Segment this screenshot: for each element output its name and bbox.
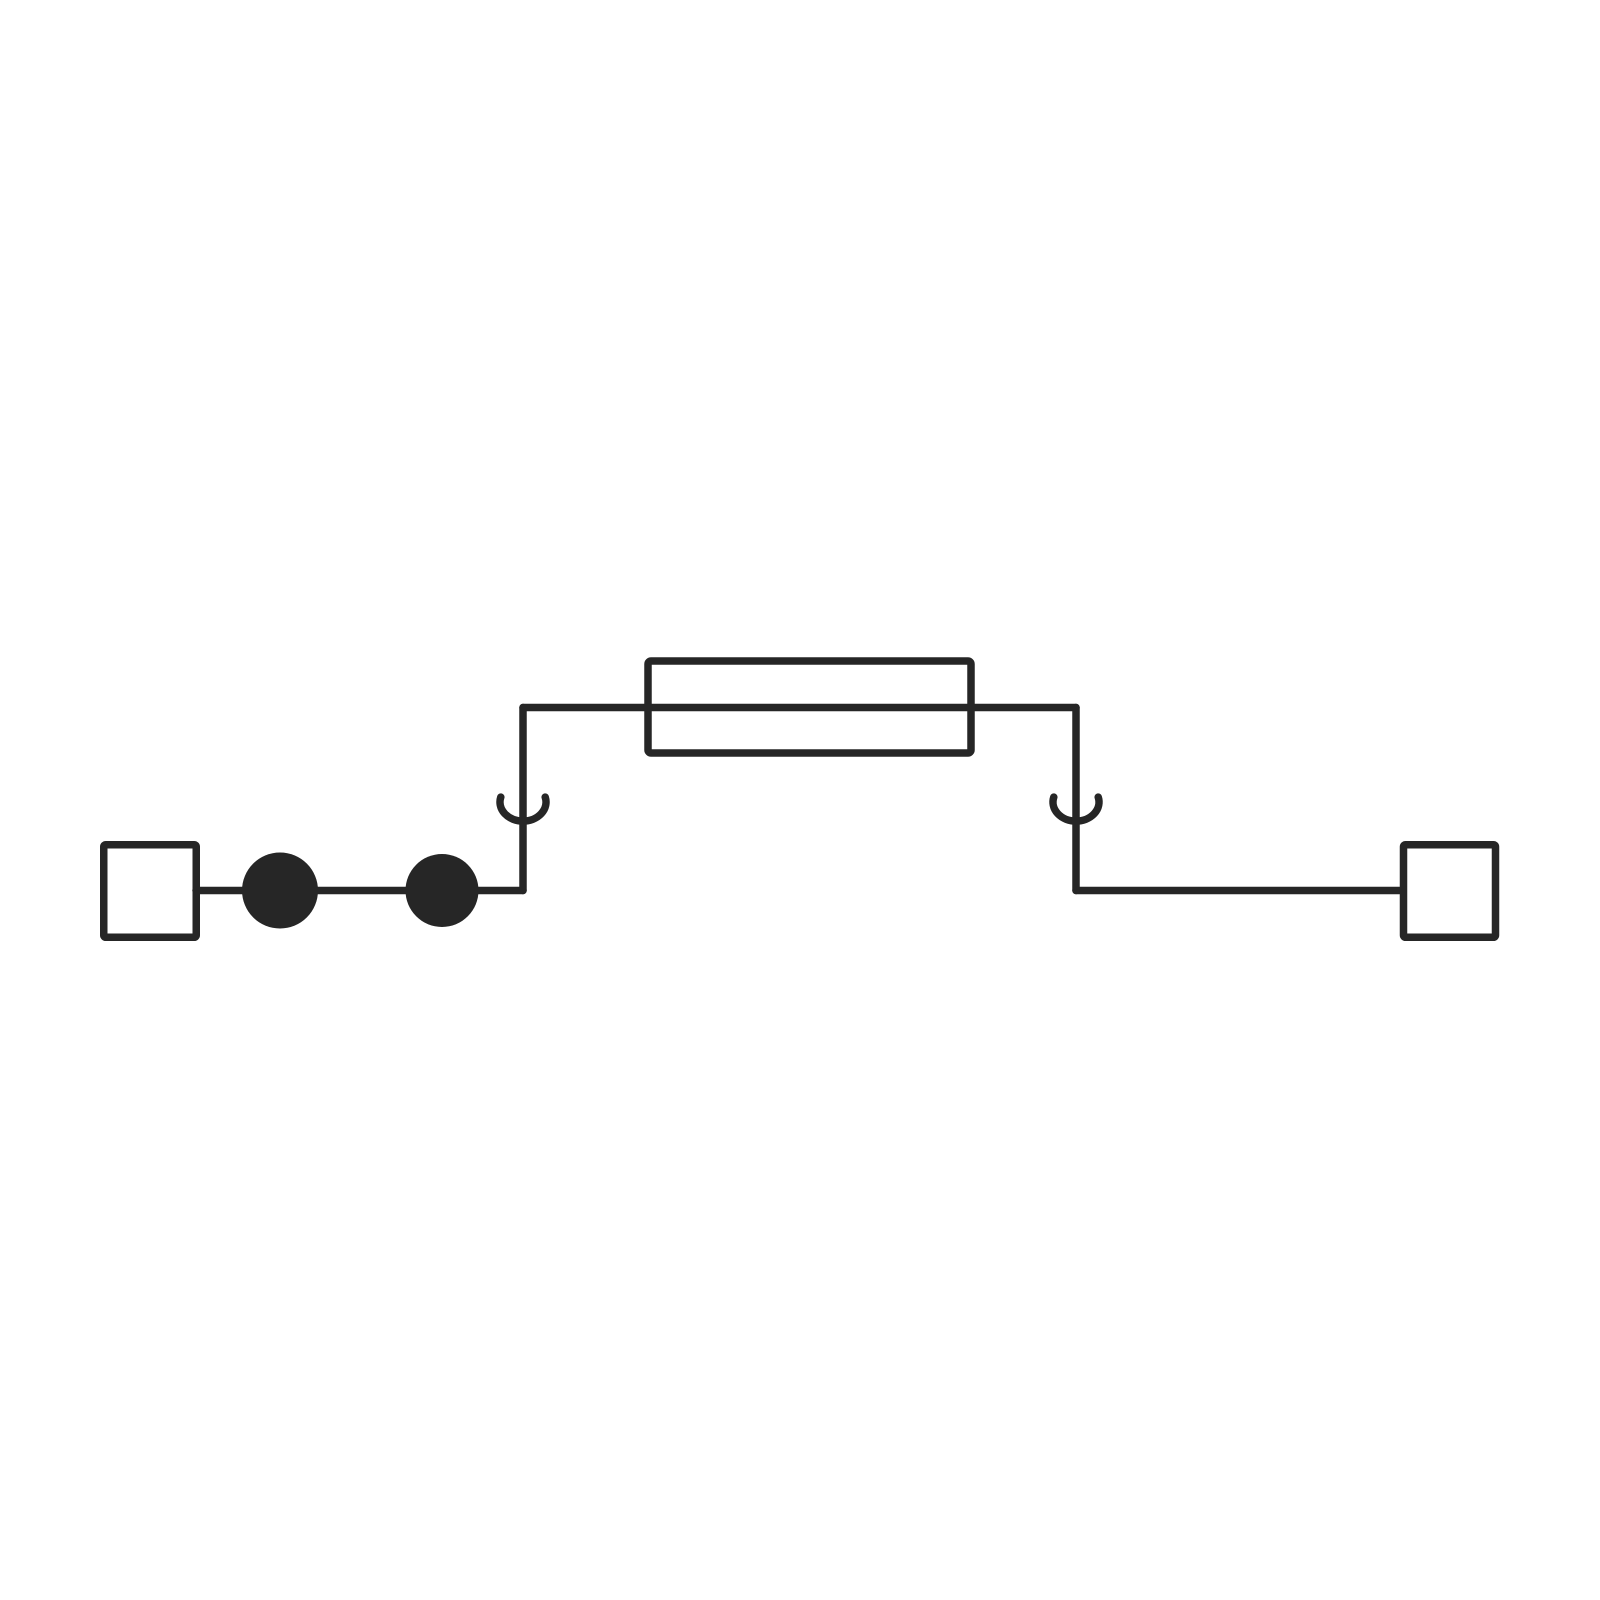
wire: left terminal to left riser [196, 887, 523, 895]
wire: top run through fuse [523, 704, 1076, 712]
terminal square left (screw clamp 1) [104, 845, 197, 938]
test plug contact dot 2 [406, 854, 479, 927]
clamp contact symbol left [500, 797, 546, 821]
fuse F1 [648, 661, 971, 753]
wire: left riser [519, 708, 527, 891]
wire: right riser [1072, 708, 1080, 891]
clamp contact symbol right [1053, 797, 1099, 821]
terminal square right (screw clamp 2) [1404, 845, 1496, 938]
wire: right riser to right terminal [1076, 887, 1403, 895]
test plug contact dot 1 [242, 853, 318, 929]
